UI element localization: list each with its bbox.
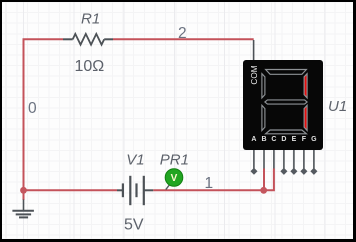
svg-text:D: D xyxy=(281,136,286,143)
svg-text:U1: U1 xyxy=(328,98,347,115)
U1 pin E xyxy=(290,136,297,175)
svg-text:1: 1 xyxy=(205,175,214,192)
svg-text:C: C xyxy=(271,136,276,143)
wire pin C drop xyxy=(264,169,274,191)
segment C (lit red) xyxy=(304,105,307,130)
probe PR1 body xyxy=(165,169,183,187)
segment A (unlit) xyxy=(266,70,307,75)
svg-text:A: A xyxy=(251,136,256,143)
U1 COM pin stub xyxy=(253,40,255,60)
svg-text:V: V xyxy=(171,173,178,184)
segment B (lit red) xyxy=(304,74,307,98)
segment G (unlit) xyxy=(265,100,307,104)
segment F (unlit) xyxy=(262,74,265,98)
svg-text:V1: V1 xyxy=(126,152,144,169)
battery V1 xyxy=(117,176,153,205)
probe PR1 pointer xyxy=(166,183,171,190)
svg-text:0: 0 xyxy=(28,100,37,117)
svg-text:5V: 5V xyxy=(124,217,144,234)
svg-text:R1: R1 xyxy=(81,11,100,28)
svg-text:PR1: PR1 xyxy=(160,152,189,169)
svg-text:F: F xyxy=(302,136,307,143)
wire pin B drop xyxy=(263,169,265,191)
svg-text:10Ω: 10Ω xyxy=(75,58,105,75)
U1 pin G xyxy=(310,136,317,175)
svg-text:B: B xyxy=(261,136,266,143)
junction node 0 / ground dot xyxy=(20,187,27,194)
U1 pin A xyxy=(250,136,257,175)
svg-text:G: G xyxy=(311,136,317,143)
segment D (unlit) xyxy=(266,130,307,134)
resistor R1 xyxy=(63,34,113,45)
U1 pin D xyxy=(280,136,287,175)
U1 pin B xyxy=(261,136,266,169)
segment E (unlit) xyxy=(262,105,265,130)
ground stub wire (red part) xyxy=(23,190,25,200)
wire net 0 (top-left + left side + bottom-left) xyxy=(24,39,118,190)
U1 pin F xyxy=(300,136,307,175)
ground symbol xyxy=(12,200,34,218)
svg-text:COM: COM xyxy=(250,65,259,84)
display U1 body xyxy=(243,60,323,150)
wire net 2 (resistor to display COM) xyxy=(113,38,254,40)
wire net 1 (battery to pins B/C junction) xyxy=(153,189,264,191)
svg-text:E: E xyxy=(292,136,297,143)
svg-text:2: 2 xyxy=(178,25,187,42)
U1 pin C xyxy=(271,136,276,169)
junction node 1 dot xyxy=(260,187,267,194)
